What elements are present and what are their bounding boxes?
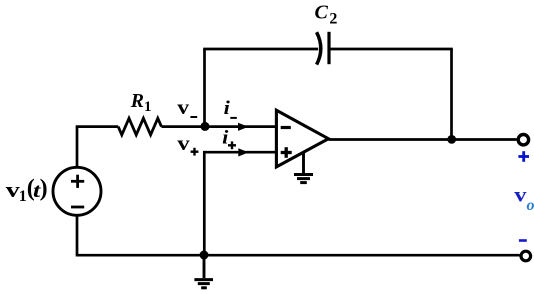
label i+ — [222, 127, 236, 149]
node v- junction dot — [201, 122, 210, 131]
resistor R1 — [118, 118, 161, 135]
current arrow i+ — [238, 148, 248, 156]
op-amp plus input mark — [281, 147, 292, 158]
op-amp U1 triangle — [276, 110, 328, 167]
label R1 — [130, 90, 152, 115]
wire feedback top right segment — [329, 48, 453, 51]
capacitor C2 straight plate — [327, 32, 330, 64]
wire input horizontal left segment — [76, 125, 119, 128]
terminal top open circle — [518, 135, 528, 145]
svg-text:o: o — [527, 197, 534, 214]
svg-text:2: 2 — [329, 10, 337, 27]
wire feedback vertical down to output — [450, 49, 453, 140]
capacitor C2 curved plate — [317, 32, 321, 64]
bottom junction dot — [200, 251, 209, 260]
label v- — [177, 95, 197, 119]
svg-text:i: i — [224, 98, 231, 119]
wire feedback vertical up from node — [203, 49, 206, 127]
wire noninverting vertical down to bottom rail — [203, 151, 206, 255]
label i- — [224, 98, 237, 119]
label vo (blue) — [514, 183, 534, 214]
svg-text:v: v — [177, 131, 190, 155]
voltage source plus sign — [71, 175, 84, 188]
node output junction dot — [447, 135, 456, 144]
op-amp ground stem — [302, 153, 305, 174]
wire noninverting horizontal — [204, 151, 276, 154]
svg-text:C: C — [315, 2, 329, 24]
wire output horizontal — [328, 138, 516, 141]
svg-text:v: v — [6, 177, 20, 202]
label v+ — [177, 131, 198, 156]
wire resistor to inverting input — [161, 125, 276, 128]
svg-text:1: 1 — [19, 188, 27, 205]
svg-text:1: 1 — [144, 99, 152, 115]
blue minus sign output — [519, 239, 527, 242]
wire bottom rail — [76, 254, 520, 257]
svg-text:v: v — [177, 95, 189, 119]
voltage source V1 circle — [53, 167, 101, 215]
op-amp minus input mark — [281, 126, 291, 129]
bottom ground stem — [203, 255, 206, 278]
terminal bottom open circle — [521, 251, 531, 261]
op-amp ground bars — [294, 175, 313, 183]
wire source bottom to bottom rail — [76, 215, 79, 255]
wire feedback top left segment — [203, 48, 318, 51]
svg-text:R: R — [130, 90, 144, 112]
label C2 — [315, 2, 338, 28]
wire left vertical from input line down to source top — [76, 127, 79, 167]
svg-text:v: v — [514, 183, 527, 207]
blue plus sign output — [518, 151, 529, 162]
svg-text:): ) — [40, 176, 48, 202]
voltage source minus sign — [71, 206, 84, 209]
current arrow i- — [238, 123, 248, 131]
bottom ground bars — [194, 280, 213, 288]
label v1(t) — [6, 176, 48, 205]
